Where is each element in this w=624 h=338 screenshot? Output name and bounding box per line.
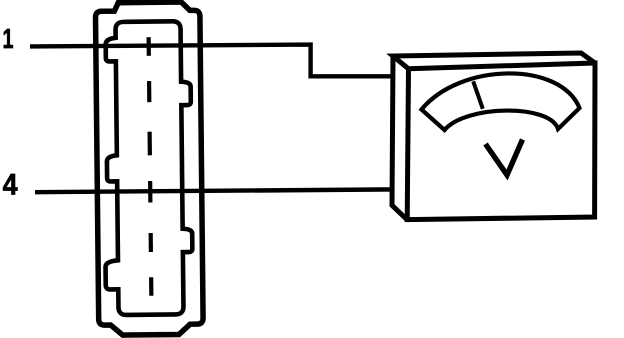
svg-text:4: 4 — [3, 168, 19, 201]
svg-text:1: 1 — [3, 23, 14, 54]
